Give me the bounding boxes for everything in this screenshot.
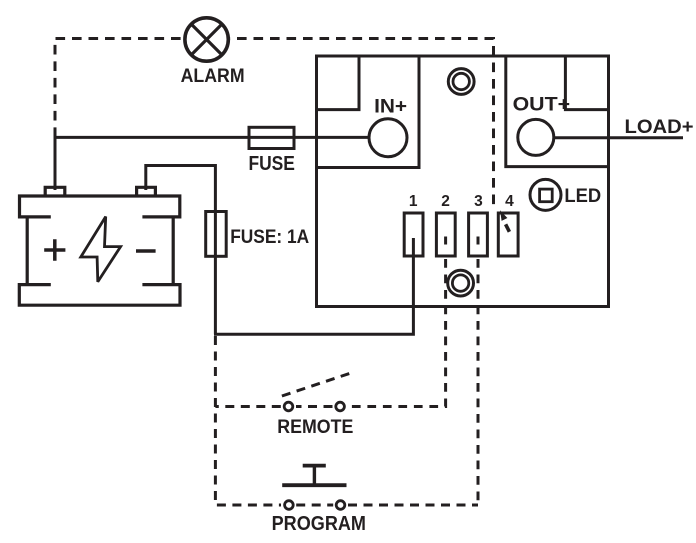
svg-text:4: 4 [505,193,514,210]
svg-text:1: 1 [409,193,418,210]
svg-text:PROGRAM: PROGRAM [272,512,366,535]
svg-text:FUSE: 1A: FUSE: 1A [230,226,309,248]
svg-text:ALARM: ALARM [181,66,245,87]
svg-text:REMOTE: REMOTE [277,416,353,438]
svg-text:FUSE: FUSE [248,153,295,175]
svg-text:LED: LED [564,185,601,207]
svg-text:3: 3 [474,193,483,210]
svg-text:IN+: IN+ [374,95,407,117]
svg-text:2: 2 [441,193,450,210]
svg-text:LOAD+: LOAD+ [625,116,694,138]
svg-text:OUT+: OUT+ [513,94,571,116]
